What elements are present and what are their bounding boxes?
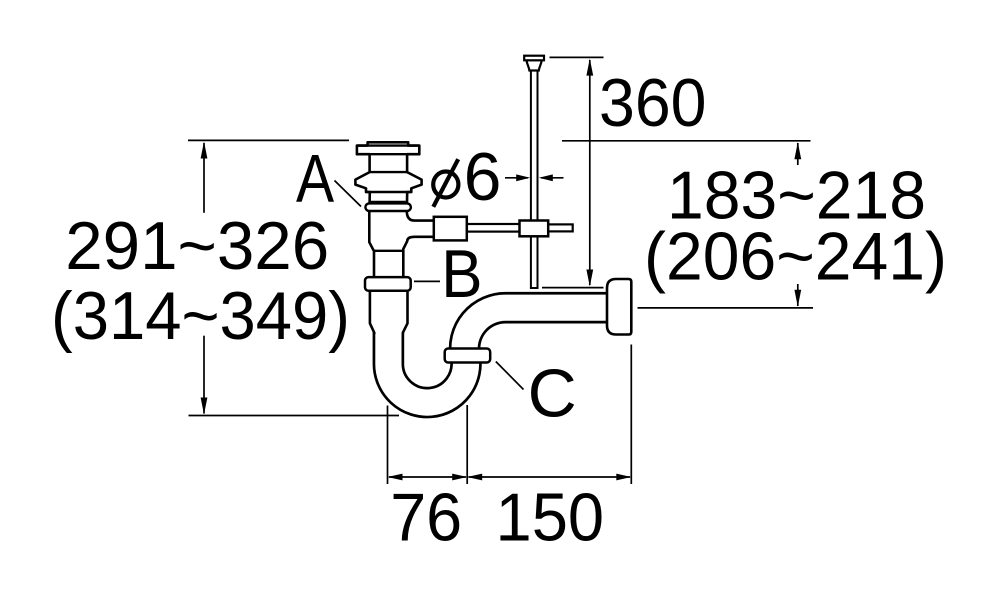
phi symbol (diameter) <box>433 159 458 207</box>
leader line for label C <box>496 362 524 390</box>
leader line for label B <box>414 280 440 282</box>
76 dimension line with arrows <box>388 474 468 481</box>
leader line for label A <box>335 181 362 207</box>
360 dimension line with arrows <box>586 59 593 287</box>
svg-text:150: 150 <box>496 480 605 556</box>
360 dimension bottom reference line <box>542 287 604 289</box>
horizontal pivot rod left <box>467 224 520 232</box>
O-ring bead <box>365 203 411 211</box>
lift rod knob <box>526 60 541 70</box>
svg-text:6: 6 <box>464 139 502 215</box>
extension line at wall face <box>630 345 632 485</box>
pipe centerline reference (bottom of 183~218) <box>638 307 814 309</box>
left height dimension top reference line <box>188 139 349 141</box>
drain fitting A (outline) <box>355 142 436 334</box>
horizontal pivot rod right <box>546 224 573 231</box>
vertical lift rod <box>531 66 538 288</box>
svg-text:A: A <box>296 141 334 217</box>
left dimension line 291~326 with arrows <box>201 142 208 415</box>
svg-text:C: C <box>528 356 577 432</box>
svg-text:(314~349): (314~349) <box>51 278 350 354</box>
phi6 rod diameter arrows <box>505 174 564 181</box>
svg-text:(206~241): (206~241) <box>644 219 947 295</box>
mounting surface reference line (top of 183~218) <box>562 140 811 142</box>
pivot block <box>434 217 467 241</box>
wall flange <box>607 279 631 335</box>
extension line at trap inlet centerline <box>387 406 389 485</box>
left height dimension bottom reference line <box>189 415 400 417</box>
slip nut B <box>365 277 411 291</box>
trap pipe (P-trap body, outlined) <box>388 308 622 403</box>
rod clamp block <box>520 221 549 237</box>
360 dimension top reference line <box>550 56 604 58</box>
slip nut C <box>445 349 491 363</box>
150 dimension line with arrows <box>467 474 631 481</box>
svg-text:291~326: 291~326 <box>65 208 329 284</box>
svg-text:360: 360 <box>599 65 707 141</box>
svg-text:76: 76 <box>390 480 462 556</box>
fitting separator lines <box>358 146 419 251</box>
extension line at trap outlet bend centerline <box>466 405 468 484</box>
svg-text:B: B <box>441 235 482 311</box>
183~218 dimension arrows <box>794 142 801 307</box>
